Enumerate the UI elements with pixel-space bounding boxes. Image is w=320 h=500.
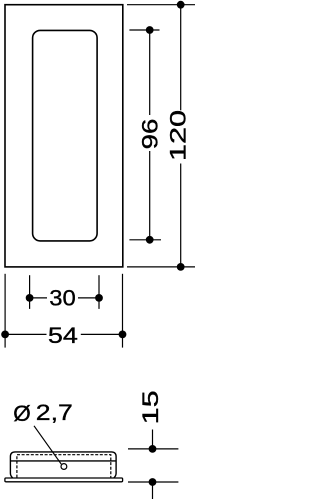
30 dim dot left — [26, 294, 34, 302]
120 dimension line upper segment — [180, 5, 182, 111]
30 dimension line right segment — [78, 297, 99, 299]
30 dimension line left segment — [30, 297, 47, 299]
120 dim dot top — [177, 1, 185, 9]
top extension line for 120 dim — [127, 4, 195, 6]
15 dimension line upper segment — [152, 430, 154, 449]
hidden recess dashed outline — [17, 455, 111, 478]
left extension line for 54 dim — [4, 274, 6, 348]
leader line to hole — [34, 426, 61, 464]
120 dim dot bottom — [177, 263, 185, 271]
outer plate rectangle — [5, 5, 123, 267]
30 dim dot right — [95, 294, 103, 302]
54 dimension line left segment — [5, 333, 46, 335]
15 dimension line lower segment — [152, 482, 154, 499]
svg-text:96: 96 — [137, 119, 162, 150]
96 dim dot top — [146, 26, 154, 34]
96 dim dot bottom — [146, 236, 154, 244]
top extension line for 15 dim — [128, 448, 178, 450]
bottom extension line for 96 dim — [129, 239, 161, 241]
svg-text:Ø: Ø — [13, 401, 31, 426]
svg-text:15: 15 — [138, 390, 163, 424]
54 dim dot right — [119, 331, 127, 339]
96 dimension line lower segment — [149, 151, 151, 240]
recess rounded rectangle — [33, 30, 98, 241]
right extension line for 30 dim — [98, 275, 100, 309]
54 dimension line right segment — [81, 333, 123, 335]
15 dim dot top — [149, 445, 157, 453]
svg-text:30: 30 — [49, 285, 76, 310]
svg-text:54: 54 — [48, 323, 78, 348]
right extension line for 54 dim — [122, 274, 124, 348]
cup body outline (section) — [10, 452, 116, 478]
rim line of section — [10, 460, 116, 462]
54 dim dot left — [1, 331, 9, 339]
15 dim dot bottom — [149, 478, 157, 486]
top extension line for 96 dim — [129, 29, 159, 31]
flange plate (section) — [5, 478, 123, 482]
96 dimension line upper segment — [149, 30, 151, 115]
bottom extension line for 15 dim — [128, 481, 178, 483]
svg-text:120: 120 — [166, 110, 191, 161]
bottom extension line for 120 dim — [127, 266, 195, 268]
120 dimension line lower segment — [180, 164, 182, 267]
hole circle — [61, 464, 67, 470]
left extension line for 30 dim — [29, 275, 31, 309]
svg-text:2,7: 2,7 — [36, 400, 73, 425]
